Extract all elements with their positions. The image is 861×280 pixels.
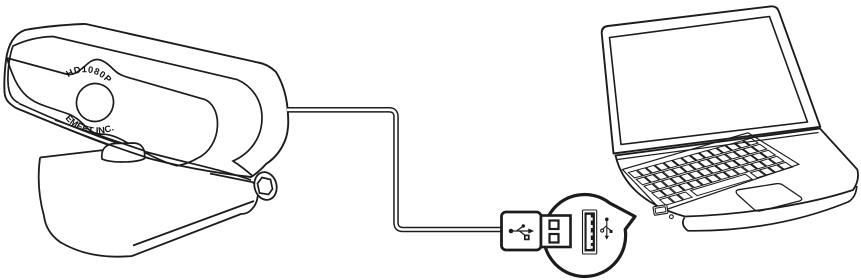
keyboard frame [623, 133, 799, 211]
webcam clip mount base (fill) [39, 151, 258, 257]
webcam inner capsule top line [8, 37, 262, 176]
laptop lid [602, 6, 821, 153]
usb plug metal connector [541, 216, 571, 248]
laptop audio jack [670, 215, 674, 219]
small usb trident in callout [601, 218, 613, 240]
webcam body outer shell [4, 24, 288, 177]
webcam inner capsule bottom line [19, 104, 251, 181]
mount visible outline [39, 150, 258, 257]
lens [72, 80, 117, 126]
callout circle with tail [544, 194, 635, 276]
laptop base deck [616, 129, 859, 217]
usb trident icon on plug [509, 224, 534, 239]
webcam front panel with lens bump and dip [7, 58, 218, 166]
usb port icon in callout [583, 210, 597, 254]
trackpad [736, 184, 802, 212]
usb plug body [502, 212, 542, 250]
keyboard keys [628, 138, 792, 205]
mount crease line [133, 201, 254, 246]
connector contact squares [550, 221, 559, 230]
neck joint [102, 143, 145, 162]
laptop usb port [653, 205, 668, 216]
laptop hinge strip [618, 133, 819, 160]
hex nut hinge [251, 170, 279, 202]
laptop screen [610, 17, 808, 145]
body bottom lines over neck [55, 120, 150, 159]
laptop base bottom rim [683, 186, 857, 231]
usb cable [287, 110, 502, 230]
